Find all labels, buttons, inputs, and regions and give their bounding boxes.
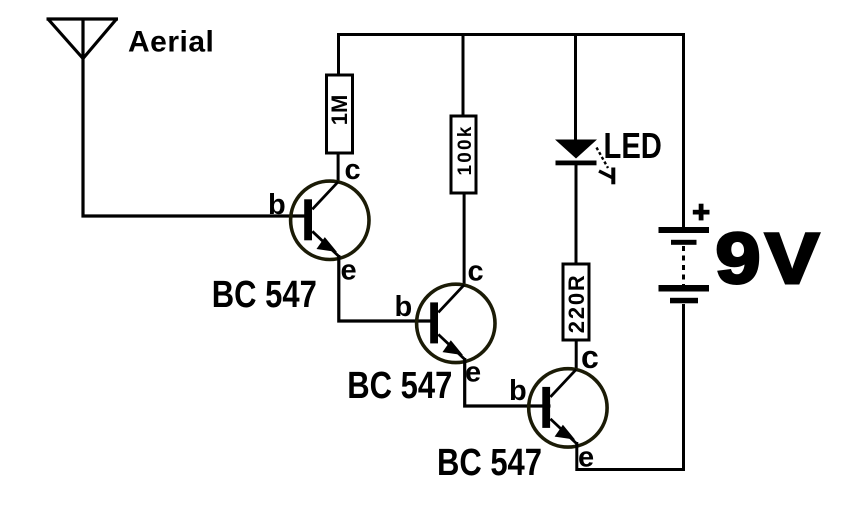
transistor Q3 BC547: [529, 369, 607, 447]
svg-text:220R: 220R: [564, 273, 589, 333]
svg-text:e: e: [465, 357, 481, 389]
wire top rail to 100k: [462, 33, 465, 116]
svg-text:b: b: [509, 375, 527, 407]
aerial antenna symbol: [47, 19, 119, 218]
svg-text:c: c: [345, 154, 361, 186]
wire Q3 emitter to battery minus: [577, 304, 684, 470]
wire 220R bottom to Q3 collector: [575, 340, 578, 371]
LED arrow: [597, 148, 614, 185]
wire Q2 emitter to Q3 base: [465, 358, 551, 406]
battery B1 9V: [659, 204, 710, 304]
wire aerial to Q1 base: [82, 214, 313, 217]
svg-text:1M: 1M: [327, 95, 352, 126]
resistor R1 1M: [327, 75, 353, 153]
svg-text:c: c: [581, 339, 599, 375]
resistor R2 100k: [451, 116, 476, 193]
svg-text:b: b: [268, 189, 286, 221]
wire Q1 emitter to Q2 base: [339, 255, 438, 321]
svg-text:9V: 9V: [716, 220, 824, 299]
wire top rail to LED anode: [574, 33, 577, 141]
svg-text:BC 547: BC 547: [437, 442, 542, 484]
svg-text:Aerial: Aerial: [128, 26, 214, 59]
wire 100k bottom to Q2 collector: [463, 193, 466, 286]
transistor Q1 BC547: [291, 181, 369, 259]
svg-text:100k: 100k: [455, 124, 476, 175]
wire LED cathode to 220R: [575, 163, 578, 264]
svg-text:LED: LED: [604, 126, 662, 167]
wire 1M bottom to Q1 collector: [337, 153, 340, 183]
svg-text:e: e: [341, 255, 357, 287]
resistor R3 220R: [563, 264, 589, 340]
transistor Q2 BC547: [417, 284, 495, 362]
svg-text:BC 547: BC 547: [212, 274, 317, 316]
svg-text:BC 547: BC 547: [347, 365, 452, 407]
LED D1: [555, 140, 597, 166]
svg-text:b: b: [395, 291, 413, 323]
svg-text:c: c: [468, 256, 484, 288]
wire top rail (1M top, across to battery +): [339, 35, 684, 228]
